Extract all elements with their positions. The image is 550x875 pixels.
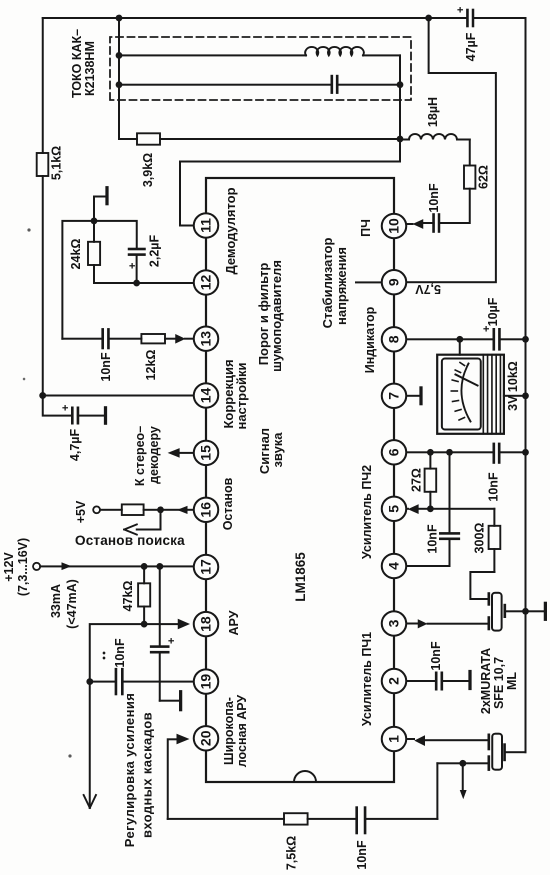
dashed box TOKO quad coil [110, 37, 411, 100]
svg-text:5,1kΩ: 5,1kΩ [50, 146, 64, 180]
svg-text:шумоподавителя: шумоподавителя [269, 260, 284, 372]
svg-text:декодеру: декодеру [147, 426, 161, 484]
arrow into pin 13 [175, 334, 185, 344]
wire quad-coil feed [118, 18, 120, 139]
node electrolytic junction [156, 563, 163, 570]
svg-text:2xMURATA: 2xMURATA [479, 648, 493, 714]
svg-text:АРУ: АРУ [227, 610, 241, 635]
svg-text:Широкопа-: Широкопа- [222, 697, 236, 765]
svg-text:10nF: 10nF [427, 183, 441, 213]
svg-text:300Ω: 300Ω [473, 523, 487, 554]
svg-text:62Ω: 62Ω [477, 165, 491, 189]
wire bottom ground rail [525, 18, 527, 752]
svg-text:15: 15 [198, 445, 214, 461]
resistor 300ohm [489, 526, 501, 549]
node right rail / coil feed junction [116, 15, 123, 22]
wire pin14 riser to top rail [43, 395, 194, 397]
svg-text:лосная АРУ: лосная АРУ [235, 695, 249, 768]
ground bar (main rail) [544, 603, 547, 619]
wire 47k link [143, 566, 145, 624]
wire 2,2uF link [94, 221, 137, 283]
meter outer box [437, 355, 504, 434]
wire pin19 riser [90, 681, 194, 683]
wire 24k to pin12 node [94, 282, 137, 284]
svg-text:+: + [481, 326, 493, 332]
wire filter1 input terminal [437, 762, 488, 764]
arrow into pin 20 [177, 734, 190, 745]
svg-text:6: 6 [386, 448, 402, 456]
node 24k top junction [91, 218, 98, 225]
wire 3,9k bus upper [119, 138, 137, 140]
wire 62ohm to 10nF [439, 189, 470, 223]
wire pin2 riser [406, 680, 436, 682]
node pin8/meter junction [456, 336, 463, 343]
resistor 7,5k [284, 813, 308, 824]
svg-text:2: 2 [386, 677, 402, 685]
svg-text:Останов: Останов [221, 477, 235, 530]
wire deemphasis link [62, 221, 94, 339]
wire pin6 riser [406, 451, 526, 453]
svg-text:11: 11 [198, 218, 214, 233]
wire coil bottom bus [399, 55, 401, 161]
svg-text:К стерео–: К стерео– [133, 426, 147, 486]
wire filter1 ground tab to rail end [505, 751, 526, 753]
svg-text:14: 14 [198, 388, 214, 404]
svg-text:+: + [455, 7, 467, 13]
svg-text:18: 18 [198, 616, 214, 632]
wire останов поиска branch [137, 510, 161, 530]
wire 24k link [93, 221, 95, 283]
node input arrow junction [459, 760, 466, 767]
arrow into pin 10 [404, 223, 413, 225]
arrow out of pin 16 [177, 506, 188, 514]
capacitor 10nF input [357, 808, 365, 833]
svg-text:4: 4 [386, 562, 402, 570]
meter ticks [451, 363, 464, 421]
capacitor 10nF pin6 [494, 444, 499, 463]
wire +12V feed [40, 565, 194, 567]
wire to ground [160, 700, 180, 702]
node 27ohm tap [427, 449, 434, 456]
meter scale arc [461, 364, 470, 422]
meter coil hatch [483, 355, 500, 434]
wire input line vertical [168, 818, 438, 820]
svg-text:входных каскадов: входных каскадов [140, 712, 155, 838]
svg-text:12kΩ: 12kΩ [144, 350, 158, 381]
svg-text:13: 13 [198, 331, 214, 347]
svg-text:27Ω: 27Ω [410, 468, 424, 492]
svg-text:47µF: 47µF [464, 32, 478, 61]
terminal +12V [33, 563, 40, 570]
speck [68, 754, 71, 757]
wire 4,7uF branch [43, 396, 72, 416]
node meter ground junction [522, 392, 529, 399]
terminal +5V [93, 506, 100, 513]
svg-text:Усилитель ПЧ1: Усилитель ПЧ1 [360, 632, 374, 726]
svg-text:3V 10kΩ: 3V 10kΩ [506, 361, 520, 411]
ground bar (AGC cap) [179, 692, 182, 710]
svg-text:Индикатор: Индикатор [363, 306, 377, 373]
capacitor 10uF [494, 329, 500, 349]
svg-text:5,7V: 5,7V [415, 282, 441, 296]
svg-text:Регулировка усиления: Регулировка усиления [122, 693, 137, 847]
svg-text:+: + [166, 638, 178, 644]
svg-text:17: 17 [198, 559, 214, 575]
node 47uF top-wire junction [425, 15, 432, 22]
node filter2 ground rail junction [522, 608, 529, 615]
svg-text:10nF: 10nF [113, 638, 127, 668]
resistor 24k [88, 242, 100, 265]
capacitor 10nF pin19 [116, 669, 122, 694]
svg-text:(7,3...16V): (7,3...16V) [16, 538, 30, 596]
wire pin9 to 5,7V node [406, 18, 496, 282]
svg-text:Демодулятор: Демодулятор [223, 187, 238, 274]
svg-text:5: 5 [386, 505, 402, 513]
node 10nF pin4 tap [446, 449, 453, 456]
svg-text:ML: ML [505, 672, 519, 690]
meter needle [456, 375, 478, 386]
wire 62ohm link [469, 140, 471, 166]
svg-text:(<47mA): (<47mA) [65, 579, 79, 629]
svg-text:4,7µF: 4,7µF [68, 429, 82, 462]
wire pin1 to filter1 [425, 739, 489, 741]
wire pin5 riser [419, 508, 495, 510]
speck [23, 378, 26, 381]
svg-text:+: + [60, 405, 72, 411]
wire right rail [43, 17, 526, 19]
svg-text:10nF: 10nF [99, 352, 113, 382]
svg-text:+12V: +12V [2, 552, 16, 582]
resistor 47k [138, 583, 150, 606]
svg-text:12: 12 [198, 275, 214, 291]
svg-text:+5V: +5V [74, 500, 88, 523]
wire +5V feed [100, 509, 194, 511]
svg-text:Останов поиска: Останов поиска [75, 533, 185, 548]
svg-text:8: 8 [386, 335, 402, 343]
ground (24k node) [94, 197, 107, 221]
ground bar (4,7uF) [104, 408, 107, 423]
svg-text:33mA: 33mA [49, 584, 63, 618]
svg-text:16: 16 [198, 502, 214, 518]
capacitor 10nF pin4-pin6 [440, 533, 459, 538]
wire pin8 riser [406, 338, 526, 340]
ground pin 7 [406, 395, 421, 397]
svg-text:ПЧ: ПЧ [359, 219, 373, 237]
wire pin12 riser [137, 282, 194, 284]
arrow input from mixer [462, 763, 464, 789]
ground bar pin2 [468, 672, 471, 689]
svg-text:Усилитель ПЧ2: Усилитель ПЧ2 [360, 465, 374, 559]
ceramic filter 1 (SFE 10,7) [492, 734, 502, 770]
wire filter2 ground tab [505, 610, 546, 612]
svg-text:+: + [127, 263, 139, 269]
IC LM1865 body [206, 178, 394, 782]
resistor 5,1k [37, 153, 49, 176]
capacitor 10nF pin2 [436, 673, 442, 689]
svg-text:К2138НМ: К2138НМ [83, 41, 97, 96]
dots above 10nF [103, 657, 106, 660]
svg-text:10µF: 10µF [486, 297, 500, 326]
pin 9 internal stub [355, 281, 382, 283]
resistor 62ohm [464, 166, 475, 189]
svg-text:2,2µF: 2,2µF [148, 235, 162, 268]
arrow out of pin 15 (stereo decoder) [180, 452, 194, 454]
svg-text:LM1865: LM1865 [293, 552, 308, 602]
svg-text:7: 7 [386, 392, 402, 400]
capacitor 4,7uF [72, 408, 78, 423]
svg-text:10: 10 [386, 218, 402, 234]
arrow into pin 1 [404, 738, 414, 740]
svg-text:10nF: 10nF [355, 840, 369, 870]
inductor quad coil winding [119, 54, 400, 56]
capacitor quad tank [332, 76, 337, 93]
resistor 27ohm [425, 469, 437, 492]
wire 3,9k bus lower [160, 138, 400, 140]
svg-text:1: 1 [386, 735, 402, 743]
node AGC junction [86, 678, 93, 685]
capacitor 47uF [467, 10, 473, 26]
capacitor 10nF pin13 [103, 329, 109, 348]
svg-text:47kΩ: 47kΩ [121, 581, 135, 612]
wire top supply rail [42, 18, 44, 396]
node 27ohm / pin5 junction [427, 505, 434, 512]
wire quad cap line [119, 84, 400, 86]
capacitor 10nF pin10 [434, 215, 439, 232]
resistor 3,9k [137, 133, 160, 144]
node top-rail / pin14 junction [39, 392, 46, 399]
wire AGC output arrow [89, 682, 91, 808]
wire pin4 link [406, 539, 450, 566]
arrow out of pin 3 [404, 623, 418, 625]
svg-text:10nF: 10nF [487, 472, 501, 502]
IC notch [294, 771, 316, 782]
arrow into pin 5 [404, 508, 408, 510]
svg-text:24kΩ: 24kΩ [69, 239, 83, 270]
wire pin20 link [168, 739, 177, 819]
wire 300ohm to filter2 [470, 572, 494, 599]
svg-text:10nF: 10nF [429, 641, 443, 671]
arrow into pin 18 [144, 623, 178, 625]
node pin12 junction [133, 280, 140, 287]
node 47k / +12V junction [141, 563, 148, 570]
wire pin13 riser [185, 338, 194, 340]
wire electrolytic link [159, 566, 161, 700]
svg-text:звука: звука [270, 432, 285, 468]
svg-text:10nF: 10nF [426, 524, 440, 554]
speck [27, 228, 30, 231]
node coil line tap [116, 52, 123, 59]
wire meter top link [459, 339, 461, 354]
svg-text:20: 20 [198, 730, 214, 746]
wire pin11 link [180, 162, 400, 226]
svg-text:ТОКО КАК–: ТОКО КАК– [70, 29, 84, 98]
node 10uF ground junction [522, 336, 529, 343]
node pin6 ground junction [522, 449, 529, 456]
svg-text:3: 3 [386, 619, 402, 627]
wire AGC to pin18 node [90, 624, 144, 682]
svg-text:3,9kΩ: 3,9kΩ [141, 153, 155, 187]
node quad cap bottom junction [397, 81, 404, 88]
node 18uH / 3,9k junction [397, 136, 404, 143]
svg-text:SFE 10,7: SFE 10,7 [492, 657, 506, 709]
wire 27ohm link [429, 452, 431, 509]
svg-text:9: 9 [386, 278, 402, 286]
resistor 12k [141, 334, 165, 343]
inductor 18uH [400, 139, 409, 141]
svg-text:7,5kΩ: 7,5kΩ [285, 836, 299, 870]
svg-text:настройки: настройки [234, 362, 249, 429]
svg-text:19: 19 [198, 674, 214, 690]
wire input line horizontal [436, 763, 438, 819]
resistor pin16 series [122, 504, 144, 515]
ceramic filter 2 (SFE 10,7) [492, 593, 502, 631]
wire pin3 to filter2 [428, 623, 489, 625]
svg-text:Стабилизатор: Стабилизатор [320, 238, 335, 329]
wire meter to ground rail [504, 395, 526, 397]
node останов junction [157, 506, 164, 513]
svg-text:18µH: 18µH [426, 97, 440, 127]
meter face [442, 359, 481, 430]
node cap line tap [116, 81, 123, 88]
wire 300ohm link [493, 509, 495, 572]
svg-text:напряжения: напряжения [334, 247, 349, 325]
arrow +12V direction [62, 562, 72, 570]
capacitor electrolytic (AGC) [151, 647, 168, 653]
capacitor 2,2uF [129, 249, 145, 255]
node 47k / pin18 junction [141, 621, 148, 628]
